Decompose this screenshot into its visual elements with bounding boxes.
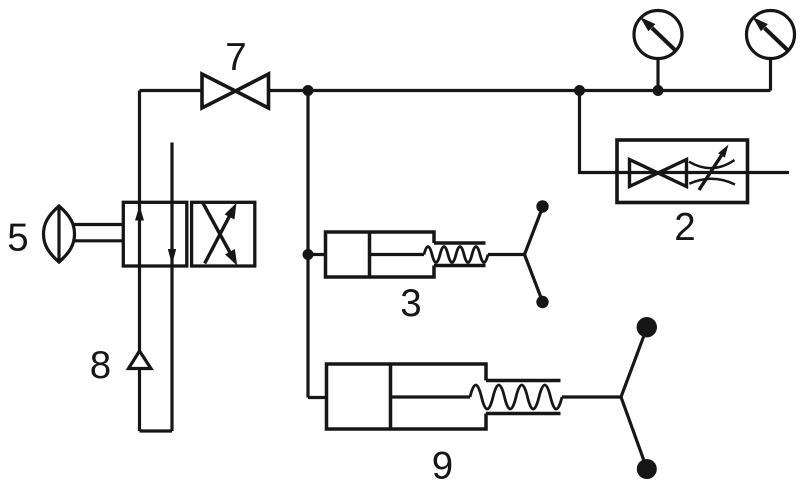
flow control valve 2 box <box>617 140 748 203</box>
cylinder 9 channel bottom <box>486 412 561 416</box>
wire to cylinder 3 <box>308 253 326 256</box>
wire bottom return <box>140 429 173 432</box>
cylinder 9 spring <box>470 385 562 409</box>
gripper 3 lower ball <box>536 296 548 308</box>
gripper 3 lower arm <box>525 255 543 302</box>
pressure gauge left <box>634 11 682 91</box>
cylinder 3 channel top <box>434 241 486 245</box>
gripper 3 upper arm <box>525 208 543 255</box>
check valve 8 triangle <box>129 351 152 369</box>
node junction under gauge branch <box>574 85 585 96</box>
valve 5 down arrow <box>168 249 176 265</box>
cylinder 3 piston <box>368 232 372 277</box>
gripper 9 lower arm <box>621 397 647 469</box>
cylinder 3 channel bottom <box>434 264 486 268</box>
cylinder 9 channel top <box>486 379 561 383</box>
svg-text:5: 5 <box>7 217 28 260</box>
node junction at valve 7 output <box>303 85 314 96</box>
gripper 9 lower ball <box>637 459 657 479</box>
svg-text:3: 3 <box>400 282 421 325</box>
cylinder 3 rod outer <box>488 253 525 256</box>
valve 2 bowtie <box>630 160 687 187</box>
cylinder 9 piston <box>389 364 393 429</box>
cylinder 9 rod outer <box>562 395 621 398</box>
valve 5 up arrow <box>135 206 144 221</box>
svg-text:9: 9 <box>432 445 453 488</box>
wire through line of valve 2 <box>617 171 748 174</box>
push button stem upper <box>73 223 123 226</box>
cylinder 3 rod <box>370 253 425 256</box>
node junction at cylinder 3 <box>303 249 314 260</box>
cylinder 9 rod <box>391 395 471 398</box>
wire to cylinder 9 <box>308 396 327 399</box>
cylinder 9 body <box>327 364 487 429</box>
wire main vertical branch <box>306 91 309 398</box>
directional valve 5 right box <box>192 202 255 266</box>
svg-text:8: 8 <box>90 344 111 387</box>
svg-text:7: 7 <box>225 36 246 79</box>
svg-text:2: 2 <box>674 206 695 249</box>
shut-off valve 7 <box>202 74 269 108</box>
valve 2 throttle arcs <box>689 160 735 185</box>
wire below check valve <box>138 369 141 432</box>
cylinder 3 body <box>326 232 435 277</box>
wire supply line left segment <box>140 89 203 92</box>
wire branch down to flow valve 2 <box>580 91 618 173</box>
wire outlet stub of valve 2 <box>748 171 790 174</box>
node junction under gauge 1 <box>653 85 664 96</box>
wire from supply down to valve 5 left port <box>138 91 141 352</box>
gripper 3 upper ball <box>536 200 548 212</box>
directional valve 5 left box <box>123 202 187 266</box>
valve 5 cross arrow up-right <box>205 216 230 263</box>
gripper 9 upper arm <box>621 328 647 397</box>
push button stem lower <box>73 239 123 242</box>
wire supply line right segment <box>269 89 771 92</box>
valve 5 cross arrow down-right <box>202 202 230 252</box>
push button 5 lens <box>44 206 75 262</box>
cylinder 3 spring <box>424 247 488 263</box>
wire exhaust stub above valve 5 <box>170 143 173 432</box>
gripper 9 upper ball <box>637 317 657 337</box>
valve 2 adjustment arrow <box>699 155 721 190</box>
pressure gauge right <box>747 11 795 91</box>
